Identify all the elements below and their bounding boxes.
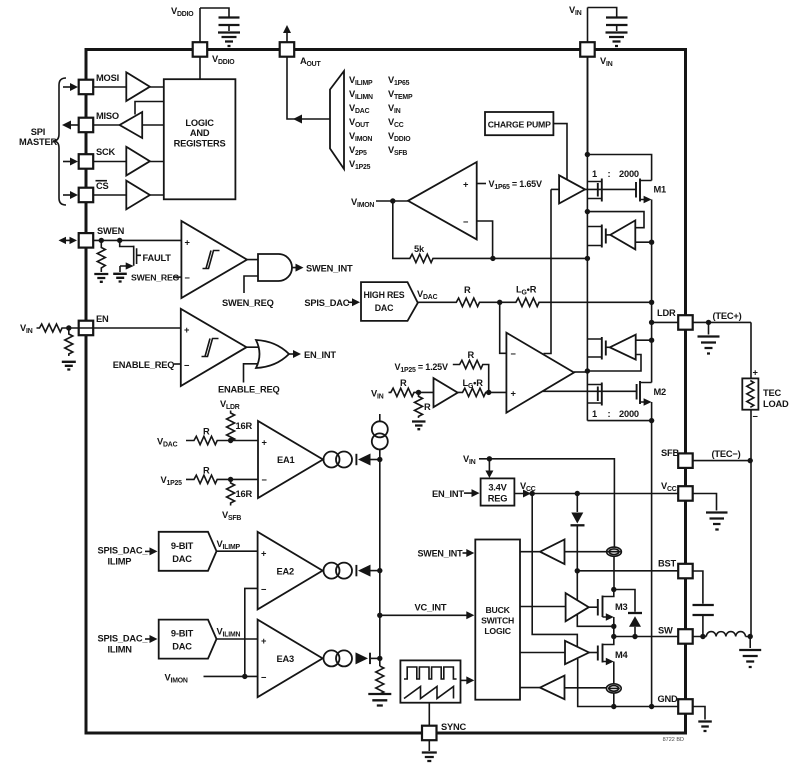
svg-text:SCK: SCK [96, 147, 116, 157]
svg-text:(TEC+): (TEC+) [713, 311, 742, 321]
svg-text:R: R [468, 350, 475, 360]
svg-text:AND: AND [190, 128, 210, 138]
svg-text:−: − [185, 273, 191, 283]
svg-text:SPIS_DAC_: SPIS_DAC_ [98, 546, 149, 556]
svg-text:+: + [261, 636, 267, 646]
svg-text:+: + [261, 549, 267, 559]
svg-text:M1: M1 [654, 185, 667, 195]
svg-text:GND: GND [658, 694, 679, 704]
svg-text:EA2: EA2 [277, 567, 295, 577]
svg-text:MOSI: MOSI [96, 73, 119, 83]
svg-text:−: − [261, 585, 267, 595]
svg-text:R: R [464, 285, 471, 295]
svg-text:1: 1 [592, 169, 597, 179]
svg-text:2000: 2000 [619, 169, 639, 179]
svg-text:R: R [203, 466, 210, 476]
svg-text:−: − [184, 361, 190, 371]
svg-text:EA3: EA3 [277, 654, 295, 664]
svg-text:DAC: DAC [375, 303, 394, 313]
svg-text:SWITCH: SWITCH [481, 616, 514, 626]
svg-text:+: + [262, 438, 268, 448]
svg-text:+: + [184, 325, 190, 335]
svg-text:R: R [203, 427, 210, 437]
svg-text:SW: SW [658, 626, 673, 636]
svg-text:SYNC: SYNC [441, 722, 467, 732]
svg-text:SPI: SPI [31, 127, 45, 137]
svg-text:16R: 16R [236, 489, 253, 499]
svg-text:3.4V: 3.4V [488, 483, 507, 493]
svg-text:BST: BST [658, 559, 677, 569]
svg-text:MASTER: MASTER [19, 137, 58, 147]
svg-text:LOGIC: LOGIC [484, 626, 511, 636]
svg-text:REG: REG [488, 494, 508, 504]
svg-text:ILIMP: ILIMP [108, 557, 132, 567]
svg-text:VC_INT: VC_INT [415, 603, 447, 613]
svg-text:SWEN_REG: SWEN_REG [131, 273, 180, 283]
svg-text:BUCK: BUCK [485, 605, 510, 615]
svg-text:EA1: EA1 [277, 455, 295, 465]
svg-text:LOGIC: LOGIC [185, 118, 214, 128]
svg-text:SPIS_DAC: SPIS_DAC [304, 298, 349, 308]
svg-text:9-BIT: 9-BIT [171, 541, 194, 551]
svg-text:1: 1 [592, 409, 597, 419]
svg-text:CS: CS [96, 181, 109, 191]
svg-text:MISO: MISO [96, 111, 119, 121]
svg-text:CHARGE PUMP: CHARGE PUMP [488, 120, 551, 130]
svg-text:9-BIT: 9-BIT [171, 629, 194, 639]
svg-text:TEC: TEC [763, 388, 781, 398]
svg-text:8722 BD: 8722 BD [663, 737, 684, 743]
svg-text:M4: M4 [615, 650, 629, 660]
svg-text:SWEN_REQ: SWEN_REQ [222, 298, 274, 308]
svg-text:SWEN: SWEN [97, 226, 125, 236]
svg-text:−: − [753, 412, 759, 422]
svg-text:16R: 16R [236, 421, 253, 431]
svg-text:+: + [463, 180, 469, 190]
svg-text:DAC: DAC [172, 642, 192, 652]
svg-text:ENABLE_REQ: ENABLE_REQ [218, 385, 280, 395]
svg-text:−: − [463, 217, 469, 227]
svg-text:SPIS_DAC_: SPIS_DAC_ [98, 633, 149, 643]
svg-text:−: − [511, 349, 517, 359]
svg-text:SFB: SFB [661, 448, 679, 458]
svg-text:−: − [262, 475, 268, 485]
svg-text:R: R [400, 378, 407, 388]
svg-text:SWEN_INT: SWEN_INT [418, 549, 464, 559]
svg-text:HIGH RES: HIGH RES [364, 290, 405, 300]
svg-text:M3: M3 [615, 602, 628, 612]
svg-text:M2: M2 [654, 387, 667, 397]
svg-text:ENABLE_REQ: ENABLE_REQ [113, 360, 175, 370]
svg-text:EN_INT: EN_INT [304, 350, 336, 360]
svg-text::: : [608, 409, 611, 419]
svg-text:(TEC−): (TEC−) [712, 449, 741, 459]
svg-text:EN: EN [96, 314, 109, 324]
svg-text:−: − [261, 673, 267, 683]
svg-text::: : [608, 169, 611, 179]
svg-text:2000: 2000 [619, 409, 639, 419]
svg-text:REGISTERS: REGISTERS [174, 139, 226, 149]
svg-text:ILIMN: ILIMN [108, 644, 133, 654]
svg-text:+: + [511, 389, 517, 399]
svg-text:SWEN_INT: SWEN_INT [306, 264, 353, 274]
svg-text:LDR: LDR [657, 308, 676, 318]
svg-text:FAULT: FAULT [143, 253, 172, 263]
svg-text:DAC: DAC [172, 554, 192, 564]
svg-text:R: R [424, 402, 431, 412]
svg-text:5k: 5k [414, 244, 425, 254]
svg-text:+: + [185, 238, 191, 248]
svg-text:LOAD: LOAD [763, 399, 789, 409]
svg-text:EN_INT: EN_INT [432, 489, 464, 499]
svg-text:+: + [753, 368, 759, 378]
